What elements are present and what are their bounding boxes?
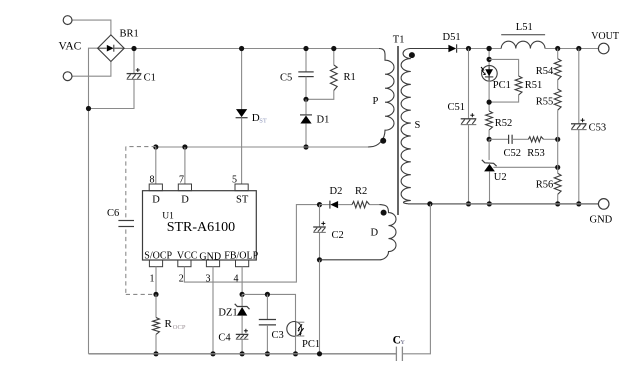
label C1 [144,73,156,84]
label S (secondary) [415,120,421,131]
wire node to R_OCP [155,294,157,317]
label STR-A6100 [167,220,235,235]
wire C1 column [133,49,135,74]
node R54 top [555,46,560,51]
wire R1 column top [333,49,335,65]
svg-text:PC1: PC1 [302,339,320,350]
label R1 [344,72,356,83]
pin 7 stub [178,184,191,191]
label R2 [355,186,367,197]
phototransistor PC1 [287,322,304,337]
pin number 5 [232,175,237,186]
wire C5 column top [305,49,307,72]
pin number 7 [179,175,184,186]
wire R54 to R55 [557,80,559,89]
capacitor C_Y [396,347,402,361]
wire C1 to left rail [89,79,135,108]
svg-text:D: D [181,195,189,206]
node C51 ground [466,201,471,206]
node C3 ground [265,351,270,356]
wire R53 to divider [544,138,558,140]
capacitor C2 [313,221,326,232]
pin label D (8) [152,195,160,206]
svg-text:1: 1 [150,274,155,285]
wire C53 to ground [578,130,580,204]
label T1 [393,35,405,46]
svg-text:GND: GND [590,215,613,226]
svg-text:C52: C52 [504,148,522,159]
label C3 [272,330,284,341]
node VCC C2 top [317,202,322,207]
wire pin 1 to node [155,267,157,295]
svg-text:ST: ST [259,118,267,125]
node pin7 drain [182,144,187,149]
capacitor C53 [571,118,587,129]
svg-text:R54: R54 [536,66,554,77]
svg-text:U2: U2 [494,172,507,183]
label C51 [448,102,466,113]
wire PC1 LED column top [488,49,490,67]
pin number 8 [150,175,155,186]
node bridge output [131,46,136,51]
label GND [590,215,613,226]
svg-text:VCC: VCC [177,251,198,262]
svg-text:C53: C53 [589,122,607,133]
svg-text:Y: Y [400,339,405,346]
wire VAC bottom terminal to bridge [72,62,111,76]
node R52 bottom [487,137,492,142]
pin label D (7) [181,195,189,206]
label PC1 transistor [302,339,320,350]
label C52 [504,148,522,159]
node secondary return [427,201,432,206]
wire secondary ground rail [408,203,598,205]
node C53 ground [576,201,581,206]
resistor R51 [515,76,522,95]
wire R1 bottom to D1 node [306,91,334,100]
pin number 4 [234,274,239,285]
svg-text:PC1: PC1 [493,80,511,91]
bridge rectifier BR1 diamond [98,35,125,62]
terminal VAC top [63,16,72,25]
label BR1 [120,29,139,40]
node R53 divider [555,137,560,142]
node R51 branch [487,57,492,62]
capacitor C3 [259,320,276,325]
wire R51 bottom [489,95,518,102]
label D2 [330,186,343,197]
node D_ST top rail [239,46,244,51]
pin number 1 [150,274,155,285]
svg-text:D51: D51 [443,32,461,43]
pin 5 stub [235,184,248,191]
svg-text:R52: R52 [495,118,513,129]
wire VCC node to D2 [320,204,330,206]
auxiliary polarity dot [381,210,387,216]
wire D_ST to pin 5 [241,118,243,184]
diode D51 [448,44,456,52]
svg-text:R53: R53 [527,148,545,159]
wire C52 to R53 [512,138,528,140]
label R_OCP [165,318,186,331]
svg-text:ST: ST [236,195,249,206]
svg-text:L51: L51 [516,22,533,33]
wire R2 to aux winding [370,204,380,206]
svg-text:R: R [165,318,173,330]
svg-text:GND: GND [199,251,221,262]
wire divider to R56 [557,167,559,173]
pin 1 stub [149,260,162,267]
pin label S/OCP [144,251,172,262]
svg-text:4: 4 [234,274,239,285]
resistor R52 [486,111,493,130]
svg-text:R56: R56 [536,180,554,191]
node U2 ref divider [555,165,560,170]
svg-text:3: 3 [206,274,211,285]
svg-text:C1: C1 [144,73,156,84]
primary polarity dot [380,138,386,144]
svg-text:C3: C3 [272,330,284,341]
resistor R56 [554,173,561,194]
capacitor C6 [118,221,134,227]
diode D2 [330,201,338,209]
wire C2 column to ground rail [319,260,321,354]
node pin 3 ground [210,351,215,356]
svg-text:C5: C5 [280,72,292,83]
node L51 left [487,46,492,51]
wire R51 branch top [489,59,518,76]
wire C53 top lead [578,49,580,124]
node C3 top [265,292,270,297]
label L51 [516,22,533,33]
svg-text:FB/OLP: FB/OLP [224,251,258,262]
svg-text:2: 2 [179,274,184,285]
node C5 top rail [303,46,308,51]
wire C52 lead [489,138,509,140]
wire primary ground rail [89,353,397,355]
svg-text:T1: T1 [393,35,405,46]
wire D51 to L51 [457,48,502,50]
label C4 [218,333,231,344]
node pin8 drain [153,144,158,149]
wire D1 anode lead [305,99,307,114]
terminal VOUT [598,43,609,54]
node snubber junction [303,97,308,102]
capacitor C51 [461,113,477,124]
wire C2 top lead [319,205,321,227]
shunt regulator U2 [482,160,497,172]
pin label ST [236,195,249,206]
svg-text:C6: C6 [107,208,119,219]
wire pin 7 riser [184,147,186,184]
wire pin 2 VCC path [184,205,319,283]
svg-text:VAC: VAC [59,41,82,53]
svg-text:DZ1: DZ1 [218,307,237,318]
label R51 [525,80,543,91]
label R54 [536,66,554,77]
label C2 [332,230,344,241]
svg-text:8: 8 [150,175,155,186]
secondary polarity dot [409,52,415,58]
wire D_ST column top [241,49,243,110]
svg-text:5: 5 [232,175,237,186]
node R_OCP ground [153,351,158,356]
pin 3 stub [206,260,219,267]
resistor R53 [528,137,543,142]
node FB [240,292,245,297]
wire R52 node to U2 [488,139,490,160]
node C2 ground [317,351,322,356]
label D1 [317,115,330,126]
svg-text:S: S [415,120,421,131]
wire U2 ref line [493,166,557,168]
node R1 top rail [331,46,336,51]
label U1 [162,211,174,221]
node R56 ground [555,201,560,206]
wire DZ1 to C4 [241,316,243,335]
label C53 [589,122,607,133]
wire C_Y right lead [402,204,430,354]
resistor R2 [352,201,370,207]
label D (auxiliary) [371,228,379,239]
wire C51 to secondary ground [468,125,470,204]
wire L51 to VOUT [545,48,599,50]
wire PC1 emitter to ground rail [295,336,297,354]
label U2 [494,172,507,183]
svg-text:R2: R2 [355,186,367,197]
label C_Y [393,334,406,346]
wire PC1 LED to R52 [488,81,490,111]
wire top rail D_ST to primary [242,48,379,50]
node pin 1 [153,292,158,297]
wire R_OCP to ground rail [155,334,157,353]
label R52 [495,118,513,129]
transformer core [397,46,399,215]
transformer secondary winding S [401,49,449,204]
wire VAC top terminal to bridge [72,20,111,35]
node D1 drain [303,144,308,149]
wire R52 to C52 node [488,130,490,139]
svg-text:R51: R51 [525,80,543,91]
label VAC [59,41,82,53]
wire bridge left vertex to left rail [89,48,98,354]
resistor R1 [330,65,337,91]
zener diode DZ1 [235,304,250,316]
pin number 2 [179,274,184,285]
svg-text:D2: D2 [330,186,343,197]
wire pin 3 to ground rail [212,267,214,354]
terminal GND [598,199,609,210]
wire pin 8 riser [155,147,157,184]
label R55 [536,97,554,108]
wire C2 bottom lead [319,233,321,260]
pin 8 stub [149,184,162,191]
node PC1 LED bottom [487,100,492,105]
wire D1 to drain line [305,124,307,147]
svg-text:R55: R55 [536,97,554,108]
wire C3 to ground rail [266,325,268,354]
wire pin 4 to FB node [241,267,243,295]
wire R55 to divider node [557,110,559,167]
wire drain line [156,146,368,148]
wire bridge right vertex to top rail [124,48,241,50]
svg-text:D: D [152,195,160,206]
wire C51 top lead [468,49,470,119]
svg-text:C51: C51 [448,102,466,113]
capacitor C52 [509,135,512,144]
terminal VAC bottom [63,72,72,81]
pin label VCC [177,251,198,262]
node PC1 ground [293,351,298,356]
label VOUT [591,31,619,42]
label D51 [443,32,461,43]
label C6 [107,208,119,219]
pin number 3 [206,274,211,285]
photodiode PC1 LED [481,66,497,82]
wire R56 to ground [557,194,559,204]
transformer auxiliary winding D [320,205,397,260]
wire C3 top lead [266,294,268,319]
svg-text:P: P [373,96,379,107]
label PC1 LED [493,80,511,91]
node C2 aux bottom [317,257,322,262]
label DZ1 [218,307,237,318]
capacitor C4 [236,329,249,340]
pin 4 stub [236,260,249,267]
svg-text:D1: D1 [317,115,330,126]
node C1 return on left rail [86,106,91,111]
svg-text:BR1: BR1 [120,29,139,40]
svg-text:VOUT: VOUT [591,31,619,42]
svg-text:STR-A6100: STR-A6100 [167,220,235,235]
label C5 [280,72,292,83]
wire C4 to ground rail [241,339,243,354]
svg-text:S/OCP: S/OCP [144,251,172,262]
node U2 ground [487,201,492,206]
label P (primary) [373,96,379,107]
wire R54 top lead [557,49,559,59]
pin label GND [199,251,221,262]
svg-text:R1: R1 [344,72,356,83]
diode D_ST [236,109,248,118]
node PC1 LED top [487,46,492,51]
wire FB to DZ1 [241,294,243,306]
resistor R54 [554,59,561,80]
transformer primary winding P [368,49,394,148]
node C4 ground [240,351,245,356]
svg-text:D: D [371,228,379,239]
label D_ST [252,112,267,125]
dashed branch with C6 [126,147,156,295]
label R56 [536,180,554,191]
inductor L51 [501,35,545,49]
resistor R55 [554,89,561,110]
wire D2 to R2 [338,204,352,206]
diode D1 [300,115,312,124]
wire U2 anode to ground [489,171,491,204]
resistor R_OCP [153,318,160,335]
node C53 top [576,46,581,51]
pin 2 stub [178,260,191,267]
capacitor C5 [298,72,313,77]
label R53 [527,148,545,159]
node D51 cathode [466,46,471,51]
pin label FB/OLP [224,251,258,262]
svg-text:OCP: OCP [173,324,186,331]
capacitor C1 [127,68,142,79]
wire FB row [242,294,295,322]
svg-text:C4: C4 [218,333,231,344]
svg-text:7: 7 [179,175,184,186]
op-amp U1 STR-A6100 body [143,191,257,260]
wire C5 to D1 node [305,77,307,100]
svg-text:C2: C2 [332,230,344,241]
